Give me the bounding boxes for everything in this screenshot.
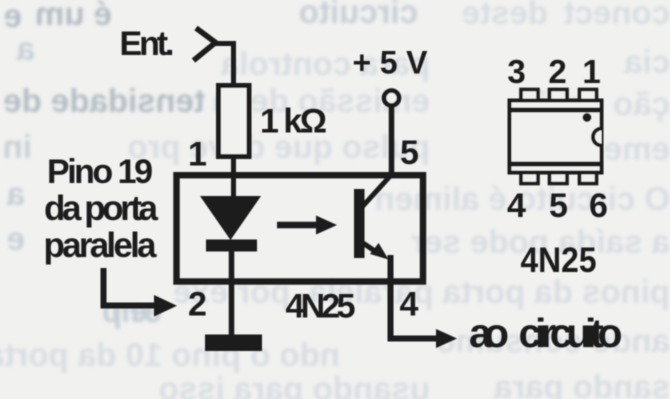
svg-text:Pino 19: Pino 19 <box>47 153 153 191</box>
svg-text:2: 2 <box>548 53 566 90</box>
svg-text:1: 1 <box>188 136 207 174</box>
svg-text:4N25: 4N25 <box>521 241 597 280</box>
Q1 collector line <box>362 174 392 207</box>
IC pin1 dot <box>583 113 592 122</box>
svg-text:paralela: paralela <box>44 226 158 265</box>
svg-text:4: 4 <box>400 286 419 324</box>
svg-text:circuito: circuito <box>299 0 418 30</box>
svg-text:Ent.: Ent. <box>120 25 175 63</box>
svg-text:2: 2 <box>188 286 207 324</box>
svg-text:3: 3 <box>507 53 525 90</box>
svg-text:+ 5 V: + 5 V <box>353 45 429 81</box>
LED cathode wire to ground <box>229 251 235 336</box>
IC pin 2 top <box>550 90 568 102</box>
IC top band <box>508 108 604 113</box>
wire: chevron to resistor top <box>214 44 234 87</box>
LED D1 triangle <box>200 196 261 240</box>
IC pin 1 top <box>580 90 597 102</box>
svg-text:4N25: 4N25 <box>286 288 356 326</box>
svg-text:circuito: circuito <box>519 310 623 356</box>
svg-text:in: in <box>3 128 32 165</box>
IC pin 3 top <box>521 90 538 102</box>
Q1 emitter line <box>360 241 377 253</box>
svg-text:a: a <box>6 175 25 212</box>
svg-text:eme: eme <box>604 130 670 167</box>
svg-text:ndo o pino 10 da porta: ndo o pino 10 da porta <box>0 336 340 373</box>
IC pin 5 bottom <box>550 172 568 184</box>
svg-text:conect: conect <box>564 0 670 31</box>
svg-text:4: 4 <box>507 187 526 225</box>
IC package top view <box>508 90 604 184</box>
svg-text:e: e <box>7 220 25 257</box>
svg-text:cia: cia <box>623 43 670 80</box>
phototransistor Q1 base bar <box>354 189 365 258</box>
L-arrow from paralela to pin 2 <box>104 268 158 306</box>
output arrowhead (ao circuito) <box>436 329 457 348</box>
coupling arrow LED to transistor <box>277 222 318 229</box>
svg-text:a: a <box>16 30 35 67</box>
resistor R1 1 kΩ body <box>219 86 250 157</box>
main schematic <box>104 28 458 351</box>
IC bottom band <box>508 162 604 167</box>
svg-text:da porta: da porta <box>44 189 159 228</box>
svg-text:exemp: exemp <box>102 292 162 329</box>
svg-text:é um: é um <box>35 0 112 32</box>
Q1 emitter arrowhead <box>370 243 389 260</box>
svg-text:5: 5 <box>400 134 419 172</box>
wire: resistor to LED <box>231 156 236 198</box>
svg-text:usando para isso: usando para isso <box>159 370 430 399</box>
svg-text:1 kΩ: 1 kΩ <box>260 103 327 141</box>
wire: +5V to box (pin 5) <box>389 106 395 175</box>
ground bar <box>205 335 262 352</box>
optocoupler box U1 <box>177 175 424 281</box>
svg-text:tensidade de luz: tensidade de luz <box>0 82 205 119</box>
LED D1 cathode bar <box>206 240 257 252</box>
IC pin 6 bottom <box>580 172 597 184</box>
svg-text:6: 6 <box>589 187 608 225</box>
svg-text:1: 1 <box>582 53 600 90</box>
+5V terminal circle <box>384 91 399 106</box>
svg-text:ao: ao <box>469 310 509 356</box>
svg-text:sando para: sando para <box>493 368 670 399</box>
IC pin 4 bottom <box>521 172 538 184</box>
IC side notch <box>593 129 602 146</box>
wire: pin 4 down and right to output <box>391 255 439 339</box>
IC labels <box>507 53 608 280</box>
svg-text:5: 5 <box>549 187 568 225</box>
input chevron (Ent.) <box>194 28 216 61</box>
svg-text:deste: deste <box>462 0 548 31</box>
svg-text:e: e <box>4 0 22 34</box>
IC body <box>510 101 602 173</box>
